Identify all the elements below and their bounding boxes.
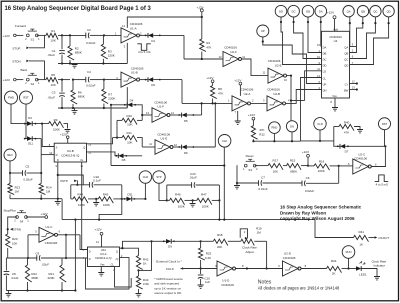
svg-text:Indicator: Indicator <box>374 264 386 268</box>
svg-text:D4: D4 <box>130 99 134 103</box>
ground for C7 <box>234 183 240 189</box>
switch S1 Forward pushbutton <box>15 24 40 42</box>
op-amp U1-D CD40106 inverter <box>215 261 244 287</box>
wire D11/R14 node to U3-B R pin <box>41 139 54 173</box>
svg-text:R44: R44 <box>78 193 84 197</box>
U4 Vss pin8 to ground <box>330 98 338 111</box>
svg-text:STRN: STRN <box>13 228 21 232</box>
svg-text:0.02uF: 0.02uF <box>86 84 96 88</box>
capacitor C2 0.02uF <box>86 28 104 45</box>
terminal UP <box>257 25 269 37</box>
U2-A pin7 ground <box>235 111 241 125</box>
wire DN down to bus <box>291 132 293 141</box>
diode D31 <box>122 192 147 201</box>
terminal RND <box>269 122 281 134</box>
svg-text:Clock Rate: Clock Rate <box>242 245 257 249</box>
wire XSTP into box <box>76 181 78 186</box>
wire U2-F out to U2-E in <box>242 59 269 76</box>
svg-text:LD: LD <box>323 70 326 74</box>
resistor R12 47K <box>251 126 265 142</box>
svg-text:UP: UP <box>261 29 265 33</box>
flip-flop U3-B CD4013 <box>49 143 92 168</box>
svg-text:CLR: CLR <box>143 175 148 179</box>
wire step bus drop to oscillator rail <box>74 220 76 291</box>
resistor R22 680K <box>25 258 38 292</box>
svg-text:* CMOS level source: * CMOS level source <box>154 277 183 281</box>
svg-text:+12V: +12V <box>60 132 67 136</box>
text notes <box>258 279 272 285</box>
svg-text:220K: 220K <box>108 96 115 100</box>
capacitor C5 0.02uF <box>9 164 42 181</box>
ground rail R13/R14 <box>10 198 62 200</box>
wire node B down to step bus <box>218 200 220 219</box>
svg-text:10K: 10K <box>51 83 56 87</box>
wire RST down to D11 <box>26 104 27 139</box>
+12V for U2-A <box>234 78 241 96</box>
svg-text:Stop/Run: Stop/Run <box>4 209 17 213</box>
wire FWD down to D3 <box>11 104 27 124</box>
pulse waveform label 4 to 5 mS (U1-A) <box>137 44 151 54</box>
svg-text:+12V: +12V <box>234 78 241 82</box>
svg-text:C2: C2 <box>87 28 91 32</box>
wire STUP to S1/R1 node <box>29 35 45 47</box>
svg-text:CL: CL <box>323 76 327 80</box>
wire S3 left to C7 ground leg <box>236 166 238 183</box>
wire D4 anode down to clock line <box>110 104 112 166</box>
terminal CLK <box>218 135 231 148</box>
svg-text:10K: 10K <box>51 39 56 43</box>
+12V at R4 <box>197 5 204 39</box>
svg-text:+12V: +12V <box>197 5 204 9</box>
wire U1-E out to D6 <box>173 146 182 148</box>
capacitor C23 .01uF <box>167 172 220 188</box>
switch S4 Stop/Run <box>4 209 30 224</box>
svg-text:100K: 100K <box>103 203 110 207</box>
svg-text:R24: R24 <box>331 259 337 263</box>
svg-text:D6: D6 <box>184 151 188 155</box>
op-amp U1-B CD40106 inverter <box>104 66 144 87</box>
svg-text:C9: C9 <box>35 251 39 255</box>
svg-text:U1-C: U1-C <box>45 225 53 229</box>
resistor R20 10K <box>6 234 18 258</box>
wire C1 bottom to rail <box>58 63 62 65</box>
U4 BW stub <box>350 88 358 90</box>
svg-text:RST: RST <box>382 122 388 126</box>
svg-text:.02uF: .02uF <box>41 262 49 266</box>
svg-text:LED1: LED1 <box>359 272 367 276</box>
label External Clock In <box>156 259 182 263</box>
svg-text:XSTP: XSTP <box>60 179 68 183</box>
svg-text:Vss: Vss <box>100 263 105 267</box>
U4 right pin numbers <box>352 42 355 89</box>
diode D5 <box>178 113 201 123</box>
svg-text:DN: DN <box>323 88 327 92</box>
ground rail of back row <box>58 107 127 109</box>
resistor R2 680K <box>68 35 82 63</box>
svg-text:R20: R20 <box>12 237 18 241</box>
svg-text:STP: STP <box>156 175 161 179</box>
svg-text:.01uF: .01uF <box>47 53 55 57</box>
svg-text:47K: 47K <box>344 130 349 134</box>
wire LD vertical <box>305 71 322 101</box>
svg-text:CD40106: CD40106 <box>221 283 234 287</box>
wire U3-A /Q feedback loop <box>86 258 130 289</box>
wire S4 left down to R20 <box>7 217 17 234</box>
svg-text:D2: D2 <box>151 83 155 87</box>
wire D6 up to clock gate line <box>214 103 216 147</box>
resistor R4 47K <box>200 39 212 59</box>
wire U1-A output to D1 <box>140 34 149 36</box>
label STDN step-down input <box>12 59 29 63</box>
svg-text:1K: 1K <box>359 242 363 246</box>
svg-text:D1: D1 <box>151 39 155 43</box>
svg-text:U2-F: U2-F <box>230 50 237 54</box>
svg-text:DD: DD <box>323 63 327 67</box>
svg-text:CLR: CLR <box>317 122 322 126</box>
svg-text:QD: QD <box>344 63 348 67</box>
svg-text:CD40106: CD40106 <box>268 59 281 63</box>
terminal QD <box>383 6 394 17</box>
svg-text:R11: R11 <box>127 131 133 135</box>
wire U3-B /Q pin12 to D8 <box>87 152 119 156</box>
resistor R6 680K <box>71 79 85 109</box>
svg-text:FWD: FWD <box>8 96 14 100</box>
terminal QA <box>343 6 354 17</box>
wire U3-B D tap to C22 line <box>57 174 83 185</box>
svg-text:U4: U4 <box>334 39 338 43</box>
wire U1-C input down to RC node <box>27 235 29 259</box>
diode D6 <box>178 145 215 155</box>
svg-text:Vss: Vss <box>332 94 337 98</box>
svg-text:220K: 220K <box>318 169 325 173</box>
svg-text:CD40106: CD40106 <box>45 241 58 245</box>
diode D8 <box>116 153 143 162</box>
svg-text:and sink expected: and sink expected <box>154 282 179 286</box>
svg-text:6.2K: 6.2K <box>205 256 211 260</box>
wire R19 down to clock bus <box>266 241 268 269</box>
svg-text:U2-A: U2-A <box>244 92 251 96</box>
svg-text:Reset: Reset <box>246 154 254 158</box>
ground symbol under rail <box>55 199 61 205</box>
wire C23 left down <box>166 185 168 200</box>
svg-text:CL: CL <box>80 158 84 162</box>
wire DB to U4 <box>307 17 322 53</box>
svg-text:DN: DN <box>290 124 294 128</box>
svg-text:D11: D11 <box>28 142 33 146</box>
wire rail into U3-A R pin4 <box>76 257 88 259</box>
resistor R24 2K <box>327 259 357 275</box>
wire STDN to S2/R5 node <box>29 61 45 80</box>
terminal QB <box>357 6 368 17</box>
svg-text:D: D <box>89 249 91 253</box>
resistor R17 10K <box>268 159 287 174</box>
text diodes note <box>258 286 340 291</box>
resistor R45 100K <box>98 193 123 207</box>
svg-text:R18: R18 <box>217 233 223 237</box>
terminal QC <box>370 6 381 17</box>
svg-text:3.9K: 3.9K <box>143 282 149 286</box>
wire U1-C output node <box>58 234 81 236</box>
svg-text:R40: R40 <box>344 120 350 124</box>
wire U1-A pin3 to ground rail <box>126 43 128 64</box>
wire rail to step bus <box>61 199 63 220</box>
svg-text:CD40106: CD40106 <box>283 256 296 260</box>
svg-text:47K: 47K <box>206 46 211 50</box>
svg-text:CD4013-B /Q: CD4013-B /Q <box>61 153 80 157</box>
wire C23 right down to node B <box>218 185 220 200</box>
capacitor C4 0.02uF <box>73 70 104 88</box>
text Clock Rate Indicator <box>372 259 387 267</box>
potentiometer R19 1M Clock Rate Adjust <box>240 227 266 254</box>
ground at R40 <box>357 130 363 133</box>
svg-text:100K: 100K <box>202 204 209 208</box>
ground symbol forward row <box>72 65 78 68</box>
capacitor C8 .01uF <box>4 258 19 291</box>
resistor R5 10K <box>46 73 58 87</box>
svg-text:680K: 680K <box>75 50 82 54</box>
svg-text:DD: DD <box>279 9 283 13</box>
svg-text:680K: 680K <box>290 169 297 173</box>
svg-text:S2: S2 <box>31 82 35 86</box>
wire step bus horizontal <box>62 219 315 221</box>
op-amp U2-B CD40106 inverter <box>267 87 290 111</box>
svg-text:+12V: +12V <box>327 11 334 15</box>
svg-text:R10: R10 <box>126 114 132 118</box>
svg-text:+12V: +12V <box>3 34 10 38</box>
svg-text:up to 1K resistor on: up to 1K resistor on <box>154 286 181 290</box>
svg-text:QD: QD <box>387 9 391 13</box>
resistor R3 220K <box>101 35 115 63</box>
svg-text:+12V: +12V <box>302 150 309 154</box>
wire QC to U4 <box>350 17 377 59</box>
wire QB to U4 <box>350 17 364 53</box>
svg-text:R41: R41 <box>358 230 364 234</box>
svg-text:0.02uF: 0.02uF <box>86 41 96 45</box>
svg-text:QA: QA <box>347 9 351 13</box>
resistor R23 6.2K <box>199 241 212 269</box>
svg-text:+12V: +12V <box>248 113 255 117</box>
U3-A pin numbers <box>82 246 123 272</box>
terminal DA <box>315 5 327 17</box>
svg-text:DA: DA <box>323 45 327 49</box>
wire random bus to CL pin riser <box>252 140 300 142</box>
svg-text:100K: 100K <box>178 204 185 208</box>
wire U3-B pin9 D down to ground rail <box>57 162 59 199</box>
svg-text:Q: Q <box>116 249 118 253</box>
svg-text:10K: 10K <box>127 141 132 145</box>
wire DC to U4 <box>293 17 322 59</box>
resistor R47 100K <box>197 193 221 209</box>
svg-text:2K: 2K <box>332 271 336 275</box>
label STUP step-up input <box>12 46 29 50</box>
resistor R8 47K <box>206 76 223 103</box>
ground below R9 <box>65 130 71 133</box>
wire clock distribution line <box>111 165 224 167</box>
diode D7 <box>334 141 387 154</box>
svg-text:Drawn by Ray Wilson: Drawn by Ray Wilson <box>280 210 326 215</box>
svg-text:R17: R17 <box>273 159 279 163</box>
terminal CLR (counter clear) <box>314 118 326 130</box>
label STRN <box>10 228 21 232</box>
svg-text:U1-A: U1-A <box>130 26 137 30</box>
resistor R10 10K <box>117 114 142 126</box>
capacitor C3 .01uF <box>47 80 64 108</box>
svg-text:REV: REV <box>7 153 13 157</box>
svg-text:4 to 5 mS: 4 to 5 mS <box>138 50 150 54</box>
svg-text:CD40106: CD40106 <box>241 87 254 91</box>
wire U2-B out to DN pin of U4 <box>286 90 322 104</box>
svg-text:220K: 220K <box>48 276 55 280</box>
wire UP to U4 UP pin <box>262 37 322 84</box>
label XSTP <box>60 179 77 183</box>
resistor R15 680K <box>287 159 310 174</box>
wire RND down to bus <box>273 133 275 141</box>
resistor R42 1K <box>136 256 148 277</box>
svg-text:R9: R9 <box>54 118 58 122</box>
resistor R43 3.9K <box>136 276 149 293</box>
terminal DD <box>275 5 287 17</box>
svg-text:R45: R45 <box>103 193 109 197</box>
svg-text:R1: R1 <box>51 29 55 33</box>
terminal RST <box>20 91 33 104</box>
svg-text:D7: D7 <box>345 150 349 154</box>
ground between R44/R45 <box>93 199 99 206</box>
svg-text:STUP: STUP <box>12 46 20 50</box>
terminal DB <box>302 5 314 17</box>
wire U2-E out node <box>287 75 293 77</box>
svg-text:CD40106: CD40106 <box>267 87 280 91</box>
LED1 clock rate indicator <box>356 261 377 276</box>
wire U1-A Vdd pin14 to +12V line <box>127 17 202 28</box>
resistor R11 10K <box>113 131 143 147</box>
wire RST down through D7 row to U2-C out <box>384 130 387 167</box>
svg-text:CD40106: CD40106 <box>354 156 367 160</box>
switch S3 Reset pushbutton <box>243 154 258 172</box>
wire S1 to R1 <box>37 34 46 36</box>
wire node down to C1 <box>61 35 63 49</box>
wire D5 up to clock gate line <box>201 103 203 115</box>
wire output down to C9 right rail <box>65 235 67 259</box>
svg-text:U3-B: U3-B <box>67 149 74 153</box>
svg-text:.01uF: .01uF <box>47 96 55 100</box>
wire clear node line <box>301 140 334 142</box>
wire into U2-C <box>339 162 353 166</box>
op-amp U2-A CD40106 inverter <box>228 87 254 114</box>
wire U2-A to U2-B <box>251 99 268 104</box>
svg-text:U1-B: U1-B <box>131 71 138 75</box>
wire R42/R43 junction to riser <box>139 240 153 270</box>
svg-text:S3: S3 <box>248 168 252 172</box>
capacitor C6 0.02uF <box>302 176 339 193</box>
svg-text:BW: BW <box>344 88 349 92</box>
wire CLR down to clear node <box>319 130 321 142</box>
svg-text:External Clock In *: External Clock In * <box>156 259 182 263</box>
wire S2 to R5 <box>37 79 46 81</box>
wire U1-B bottom pin to rail <box>126 87 128 108</box>
wire U3-A Q pin1 out <box>120 248 139 255</box>
wire U2-C out to reset line riser <box>371 166 385 169</box>
svg-text:R12: R12 <box>259 133 265 137</box>
op-amp U1-E CD40106 inverter <box>142 132 177 154</box>
svg-text:C5: C5 <box>25 164 29 168</box>
svg-text:10K: 10K <box>127 123 132 127</box>
svg-text:CY: CY <box>345 82 349 86</box>
wire DD to U4 <box>280 17 322 65</box>
svg-text:16 Step Analog Sequencer Schem: 16 Step Analog Sequencer Schematic <box>280 205 362 210</box>
wire D2 down to clock gate line <box>181 80 183 104</box>
svg-text:47K: 47K <box>218 92 223 96</box>
svg-text:+12V: +12V <box>95 228 102 232</box>
svg-text:0.01uF: 0.01uF <box>258 187 268 191</box>
svg-text:Q: Q <box>83 146 85 150</box>
svg-text:/Q: /Q <box>116 257 119 261</box>
resistor R40 47K <box>334 120 360 140</box>
diode D11 <box>24 136 41 145</box>
U3-A pin7 ground <box>98 267 104 276</box>
svg-text:S: S <box>56 146 58 150</box>
svg-text:1M: 1M <box>257 230 262 234</box>
resistor R9 100K <box>49 118 68 131</box>
svg-text:+12V: +12V <box>3 78 10 82</box>
svg-text:D9: D9 <box>168 245 172 249</box>
wire R1 to node <box>58 34 70 36</box>
wire R5 to node <box>58 79 70 81</box>
label CKOUT output <box>375 236 390 240</box>
svg-text:CD4013-A /Q: CD4013-A /Q <box>95 256 112 260</box>
svg-text:C4: C4 <box>87 70 91 74</box>
resistor R14 1M <box>39 173 52 199</box>
svg-text:RND: RND <box>271 126 277 130</box>
node at R3 top <box>103 34 105 36</box>
svg-text:Vdd: Vdd <box>333 27 338 31</box>
ground between R46/R47 <box>190 200 196 207</box>
svg-text:QB: QB <box>344 51 348 55</box>
label XCLK input <box>166 267 217 271</box>
svg-text:U1-D: U1-D <box>222 279 230 283</box>
resistor R21 220K <box>48 258 67 292</box>
svg-text:DC: DC <box>292 9 296 13</box>
svg-text:10K: 10K <box>12 241 17 245</box>
svg-text:Notes: Notes <box>258 279 272 285</box>
resistor R46 100K <box>167 193 197 209</box>
wire STP down to R46 <box>159 183 168 201</box>
svg-text:0.02uF: 0.02uF <box>23 177 33 181</box>
wire U2-D out to R24 <box>301 268 327 270</box>
oscillator ground rail <box>6 289 76 291</box>
diode D2 <box>145 77 182 87</box>
svg-text:R4: R4 <box>206 41 210 45</box>
svg-text:10K: 10K <box>273 169 278 173</box>
wire CLK down to step bus <box>223 147 225 220</box>
wire S3 right to R17 <box>255 165 268 167</box>
ground rail of forward row <box>58 62 127 64</box>
capacitor C10 1uF <box>198 269 211 289</box>
op-amp U2-E CD40106 inverter <box>263 59 288 83</box>
op-amp U2-F CD40106 inverter <box>219 46 246 67</box>
svg-text:+12V: +12V <box>206 76 213 80</box>
terminal RST (reset in) <box>379 118 391 130</box>
svg-text:CLK: CLK <box>222 139 227 143</box>
svg-text:DC: DC <box>323 57 327 61</box>
svg-text:R46: R46 <box>175 193 181 197</box>
terminal STP <box>153 171 165 183</box>
capacitor C22 0.1uF <box>71 175 122 188</box>
svg-text:U2-B: U2-B <box>273 92 280 96</box>
svg-text:QA: QA <box>344 45 348 49</box>
svg-text:R15: R15 <box>290 159 296 163</box>
svg-text:680K: 680K <box>78 94 85 98</box>
svg-text:STDN: STDN <box>12 59 20 63</box>
